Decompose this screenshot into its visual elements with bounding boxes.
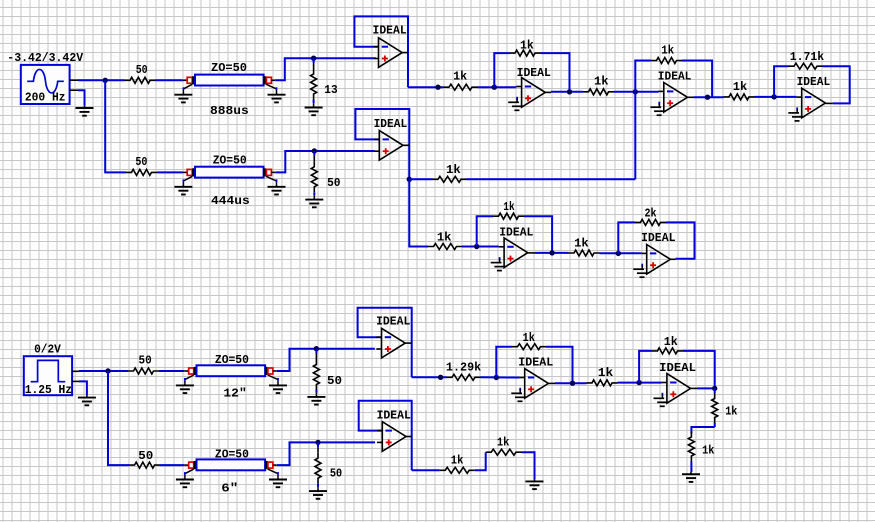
resistor R23 1k (load) [688, 432, 694, 473]
resistor R23 value label [702, 443, 714, 457]
transmission line T3 body [197, 365, 266, 376]
svg-text:1k: 1k [503, 200, 514, 214]
voltage source V2 (pulse) body [24, 356, 72, 395]
wire R9 to U4 out [823, 66, 850, 103]
wire R12 to U6 - [462, 246, 499, 248]
resistor R2 value label [135, 155, 147, 169]
svg-text:50: 50 [327, 374, 342, 388]
op-amp U10 [662, 374, 697, 404]
resistor R4 1k [444, 84, 478, 90]
wire R6 to node F [614, 91, 659, 93]
svg-text:1.29k: 1.29k [446, 360, 481, 374]
svg-text:444us: 444us [211, 194, 250, 208]
svg-text:50: 50 [138, 449, 153, 463]
resistor R1 value label [136, 63, 148, 77]
resistor R1 50 [125, 77, 156, 83]
resistor R14 1k [569, 250, 600, 256]
ground at U10 + [654, 393, 669, 407]
resistor R5 1k (U2 feedback) [510, 50, 541, 56]
op-amp U7 feedback wire [618, 222, 635, 253]
wire R19 to U9 out [546, 347, 573, 384]
op-amp U2 label IDEAL [517, 66, 551, 80]
svg-text:50: 50 [139, 354, 152, 368]
voltage source V1 (sine) label [7, 51, 83, 65]
svg-text:1k: 1k [733, 80, 747, 94]
resistor R24 value label [138, 449, 153, 463]
svg-text:50: 50 [135, 155, 147, 169]
svg-text:IDEAL: IDEAL [518, 356, 553, 370]
resistor R26 value label [451, 453, 464, 467]
node H junction [771, 94, 776, 99]
wire T1 out up to node B [275, 58, 313, 80]
wire R2 to T2 [157, 171, 183, 173]
wire node B to U1 + [314, 57, 376, 59]
transmission line T1 right pin [271, 79, 275, 81]
svg-text:1.25 Hz: 1.25 Hz [25, 383, 72, 397]
wire R11 to node F [467, 178, 636, 180]
ground at V2 [78, 395, 96, 405]
op-amp U4 label IDEAL [797, 75, 831, 89]
svg-text:1k: 1k [702, 443, 714, 457]
ground at U2 + [508, 97, 523, 111]
resistor R16 value label [139, 354, 152, 368]
transmission line T4 right connector square [268, 462, 273, 468]
node S junction [636, 380, 641, 385]
wire U5 out to R11 [409, 178, 432, 180]
op-amp U11 feedback wire [359, 401, 412, 471]
svg-text:-3.42/3.42V: -3.42/3.42V [7, 51, 83, 65]
resistor R14 value label [574, 236, 589, 250]
svg-text:1k: 1k [594, 74, 609, 88]
svg-text:50: 50 [330, 467, 342, 481]
ground at R27 [526, 479, 544, 489]
resistor R19 value label [523, 331, 536, 345]
svg-text:1k: 1k [453, 69, 467, 83]
resistor R18 value label [446, 360, 481, 374]
node M junction [616, 251, 621, 256]
wire R26 to R27 [475, 452, 486, 470]
svg-text:12": 12" [223, 387, 246, 401]
resistor R27 1k [486, 449, 522, 455]
svg-text:IDEAL: IDEAL [373, 24, 407, 38]
svg-text:888us: 888us [210, 104, 249, 118]
svg-text:IDEAL: IDEAL [376, 315, 410, 329]
resistor R6 value label [594, 74, 609, 88]
resistor R22 value label [725, 404, 737, 418]
op-amp U10 feedback wire [639, 351, 652, 383]
svg-text:1.71k: 1.71k [790, 50, 824, 64]
op-amp U2 feedback wire [494, 53, 509, 87]
node G junction [705, 95, 710, 100]
transmission line T2 right end cap [263, 168, 266, 176]
resistor R20 1k [587, 380, 618, 386]
node A junction [103, 78, 108, 83]
svg-text:200 Hz: 200 Hz [25, 91, 66, 105]
ground at T1 right shield [266, 84, 285, 102]
wire R24 to T4 [160, 464, 184, 466]
op-amp U1 [374, 38, 408, 68]
transmission line T4 left connector square [189, 462, 194, 468]
T2 delay label 444us [211, 194, 250, 208]
node N junction [105, 368, 110, 373]
svg-text:ZO=50: ZO=50 [211, 61, 247, 75]
svg-text:1k: 1k [661, 44, 674, 58]
op-amp U3 label IDEAL [658, 70, 692, 84]
op-amp U10 label IDEAL [659, 361, 696, 375]
wire R22 to R23 [691, 427, 714, 434]
svg-text:ZO=50: ZO=50 [213, 153, 247, 167]
resistor R21 1k (U10 feedback) [652, 348, 683, 354]
transmission line T4 right pin [273, 464, 277, 466]
wire R16 to T3 [159, 370, 184, 372]
ground at R23 [682, 472, 700, 482]
op-amp U8 feedback wire [358, 308, 412, 378]
svg-text:0/2V: 0/2V [34, 342, 61, 356]
op-amp U9 feedback wire [496, 347, 512, 378]
wire R20 to U10 - [618, 382, 662, 384]
resistor R26 1k [440, 467, 475, 473]
resistor R4 value label [453, 69, 467, 83]
voltage source V2 (pulse) label [34, 342, 61, 356]
transmission line T1 left end cap [192, 76, 195, 84]
node D junction [492, 85, 497, 90]
ground at U6 + [491, 257, 506, 271]
svg-text:1k: 1k [664, 335, 678, 349]
wire R1 to T1 [156, 79, 183, 81]
wire V1- to ground [78, 90, 85, 106]
resistor R21 value label [664, 335, 678, 349]
svg-text:1k: 1k [446, 163, 461, 177]
svg-text:13: 13 [324, 83, 337, 97]
resistor R2 50 [126, 169, 157, 175]
ground at T3 left shield [176, 375, 194, 393]
svg-text:IDEAL: IDEAL [797, 75, 831, 89]
resistor R9 1.71k (U4 feedback) [789, 63, 823, 69]
T1 delay label 888us [210, 104, 249, 118]
wire R18 to U9 - [481, 376, 520, 378]
op-amp U11 [377, 422, 412, 452]
svg-text:1k: 1k [598, 366, 614, 380]
wire node A down to branch2 [105, 80, 126, 172]
transmission line T2 body [195, 167, 264, 178]
T1 impedance label ZO=50 [211, 61, 247, 75]
voltage source V1 frequency label [25, 91, 66, 105]
op-amp U6 feedback wire [477, 216, 493, 246]
resistor R15 2k (U7 feedback) [635, 219, 666, 225]
ground at V1 [76, 106, 94, 116]
resistor R27 value label [497, 435, 510, 449]
transmission line T4 right end cap [265, 461, 268, 469]
resistor R6 1k [583, 89, 614, 95]
svg-text:1k: 1k [437, 230, 452, 244]
node J junction [407, 177, 412, 182]
svg-text:1k: 1k [574, 236, 589, 250]
svg-text:50: 50 [136, 63, 148, 77]
wire U8 out to R18 [412, 376, 447, 378]
wire U6 out to R14 [535, 252, 569, 254]
wire R8 to U4 - [755, 96, 797, 98]
op-amp U8 label IDEAL [376, 315, 410, 329]
node I junction [312, 148, 317, 153]
op-amp U4 feedback wire [774, 66, 788, 97]
svg-text:IDEAL: IDEAL [374, 117, 408, 131]
resistor R9 value label [790, 50, 824, 64]
wire V2- to ground [79, 381, 87, 395]
ground at R3 [305, 105, 323, 115]
op-amp U6 label IDEAL [499, 225, 533, 239]
resistor R25 50 (termination) [315, 442, 321, 489]
node P junction [438, 375, 443, 380]
transmission line T1 right end cap [263, 76, 266, 84]
wire R4 to U2 - [478, 86, 517, 88]
node F junction [633, 89, 638, 94]
svg-text:1k: 1k [523, 331, 536, 345]
resistor R24 50 [129, 462, 160, 468]
ground at T4 left shield [176, 469, 194, 487]
T4 impedance label ZO=50 [215, 448, 249, 462]
resistor R18 1.29k [447, 374, 481, 380]
resistor R5 value label [520, 38, 534, 52]
op-amp U5 feedback wire [355, 109, 409, 179]
svg-text:6": 6" [221, 482, 238, 496]
transmission line T1 left connector square [187, 77, 192, 83]
transmission line T2 left pin [183, 171, 188, 173]
wire node J down to R12 [409, 179, 428, 246]
resistor R25 value label [330, 467, 342, 481]
wire V1+ to node A [78, 79, 125, 81]
resistor R10 50 (termination) [311, 151, 317, 197]
node L junction [549, 250, 554, 255]
node U junction [315, 440, 320, 445]
ground at R10 [305, 197, 323, 207]
transmission line T3 right connector square [268, 368, 273, 374]
node B junction [311, 56, 316, 61]
transmission line T1 left pin [183, 79, 188, 81]
op-amp U2 [516, 78, 551, 108]
ground at T4 right shield [268, 469, 287, 487]
op-amp U8 [376, 328, 411, 358]
resistor R15 value label [645, 207, 657, 221]
wire node F down to branch2 [634, 92, 636, 180]
T3 length label 12" [223, 387, 246, 401]
transmission line T1 body [195, 75, 264, 86]
ground at U7 + [633, 264, 648, 278]
wire T4 out up to node U [277, 442, 375, 465]
wire U11 out to R26 [412, 469, 440, 471]
resistor R17 50 (termination) [313, 349, 319, 395]
resistor R10 value label [327, 176, 340, 190]
T4 length label 6" [221, 482, 238, 496]
V2 pin 1 (+) [72, 370, 79, 372]
ground at T3 right shield [268, 375, 287, 393]
svg-text:50: 50 [327, 176, 340, 190]
transmission line T3 right end cap [265, 367, 268, 375]
wire T2 out up to node I [275, 151, 374, 172]
wire node N down to branch2 [108, 371, 129, 465]
svg-text:2k: 2k [645, 207, 657, 221]
op-amp U7 [641, 245, 675, 275]
resistor R13f value label [503, 200, 514, 214]
svg-text:1k: 1k [497, 435, 510, 449]
transmission line T3 left connector square [189, 368, 194, 374]
transmission line T2 right connector square [266, 169, 271, 175]
resistor R19 1k (U9 feedback) [512, 344, 546, 350]
svg-text:1k: 1k [451, 453, 464, 467]
wire R15 to U7 out [666, 222, 695, 258]
resistor R12 value label [437, 230, 452, 244]
ground at T2 right shield [266, 176, 285, 194]
wire U3 out to R8 [694, 96, 724, 98]
svg-text:IDEAL: IDEAL [377, 408, 411, 422]
resistor R8 value label [733, 80, 747, 94]
op-amp U9 label IDEAL [518, 356, 553, 370]
node O junction [314, 346, 319, 351]
ground at U4 + [788, 107, 803, 121]
svg-text:ZO=50: ZO=50 [215, 353, 249, 367]
wire R21 to U10 out [683, 351, 715, 389]
transmission line T1 right connector square [266, 77, 271, 83]
ground at R17 [307, 395, 325, 405]
op-amp U5 [375, 131, 410, 161]
op-amp U11 label IDEAL [377, 408, 411, 422]
node E junction [567, 89, 572, 94]
V2 pin 2 (-) [72, 380, 79, 382]
svg-text:IDEAL: IDEAL [659, 361, 696, 375]
wire U9 out to R20 [555, 382, 587, 384]
voltage source V1 (sine) body [21, 65, 70, 104]
transmission line T4 left end cap [194, 461, 197, 469]
resistor R7 1k (U3 feedback) [651, 58, 682, 64]
resistor R3 value label [324, 83, 337, 97]
transmission line T3 right pin [273, 370, 277, 372]
op-amp U4 [796, 88, 832, 118]
node C junction [435, 85, 440, 90]
resistor R20 value label [598, 366, 614, 380]
op-amp U3 feedback wire [635, 61, 651, 92]
op-amp U1 label IDEAL [373, 24, 407, 38]
resistor R7 value label [661, 44, 674, 58]
node K junction [474, 244, 479, 249]
ground at T2 left shield [174, 176, 192, 194]
resistor R17 value label [327, 374, 342, 388]
wire R5 to U2 out [541, 53, 570, 92]
resistor R3 13 (termination) [311, 58, 317, 105]
V1 pin 1 (+) [70, 79, 78, 81]
ground at R25 [309, 489, 327, 499]
op-amp U7 label IDEAL [641, 231, 676, 245]
transmission line T4 body [197, 459, 266, 470]
svg-text:1k: 1k [520, 38, 534, 52]
resistor R16 50 [128, 368, 159, 374]
svg-text:IDEAL: IDEAL [658, 70, 692, 84]
op-amp U5 label IDEAL [374, 117, 408, 131]
wire R27 to ground [522, 452, 535, 479]
transmission line T3 left pin [184, 370, 189, 372]
transmission line T2 left end cap [192, 168, 195, 176]
transmission line T2 left connector square [187, 169, 192, 175]
node T junction [712, 386, 717, 391]
wire U1 out to R4 [408, 86, 444, 88]
resistor R22 1k (load) [712, 388, 718, 427]
resistor R11 value label [446, 163, 461, 177]
transmission line T2 right pin [271, 171, 275, 173]
wire V2+ to node N [79, 370, 128, 372]
resistor R8 1k [724, 94, 755, 100]
resistor R11 1k [433, 176, 467, 182]
op-amp U6 [499, 238, 535, 268]
wire T3 out up to node O [277, 349, 375, 371]
op-amp U9 [519, 369, 555, 399]
wire R14 to U7 - [600, 252, 642, 254]
T3 impedance label ZO=50 [215, 353, 249, 367]
op-amp U3 [659, 83, 695, 113]
T2 impedance label ZO=50 [213, 153, 247, 167]
op-amp U1 feedback wire [354, 16, 408, 87]
node R junction [570, 381, 575, 386]
svg-text:ZO=50: ZO=50 [215, 448, 249, 462]
voltage source V2 frequency label [25, 383, 72, 397]
resistor R12 1k [428, 244, 462, 250]
transmission line T3 left end cap [194, 367, 197, 375]
node Q junction [494, 375, 499, 380]
V1 pin 2 (-) [70, 89, 78, 91]
transmission line T4 left pin [184, 464, 189, 466]
ground at U9 + [511, 388, 526, 402]
wire R7 to U3 out [682, 61, 712, 98]
ground at U3 + [650, 102, 665, 116]
wire R13f to U6 out [524, 216, 552, 253]
wire U10 out [697, 387, 715, 389]
svg-text:IDEAL: IDEAL [641, 231, 676, 245]
wire U2 out to R6 [551, 91, 583, 93]
ground at T1 left shield [174, 84, 192, 102]
resistor R13f 1k (U6 feedback) [493, 213, 524, 219]
svg-text:1k: 1k [725, 404, 737, 418]
